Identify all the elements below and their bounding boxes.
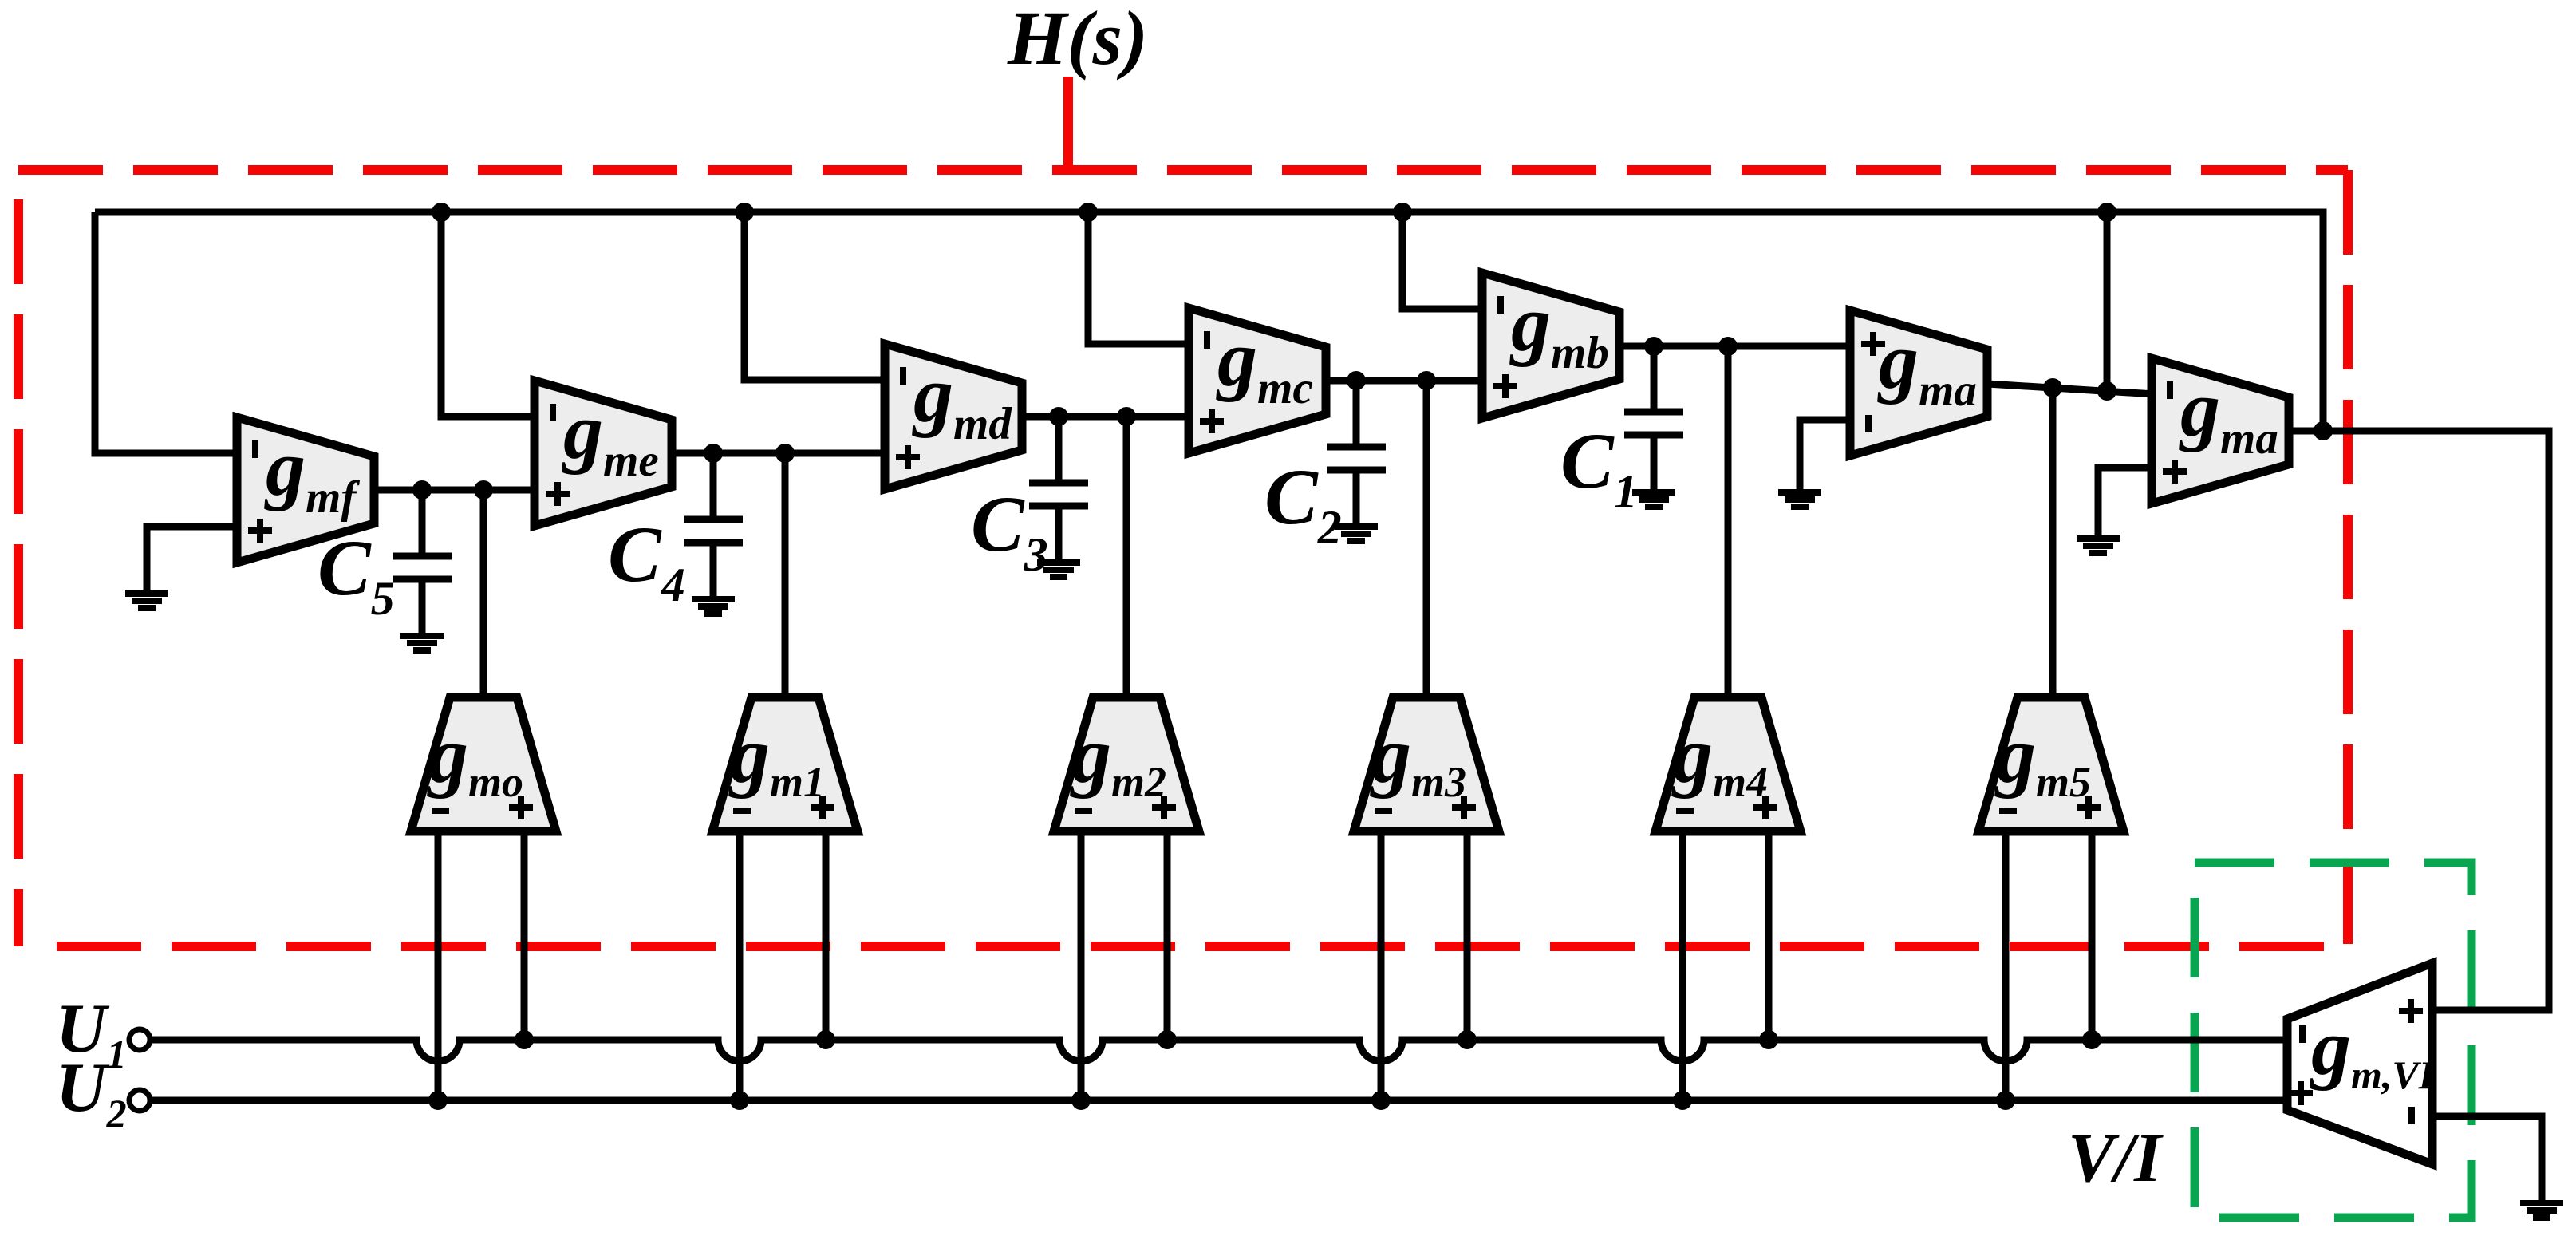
svg-text:V/I: V/I: [2068, 1120, 2164, 1197]
svg-text:H(s): H(s): [1007, 0, 1148, 81]
